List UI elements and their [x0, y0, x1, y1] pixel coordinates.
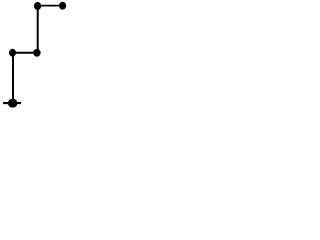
- node B (top-right junction dot): [59, 2, 66, 10]
- wire top horizontal A-B: [38, 5, 63, 7]
- wire vertical A-C: [37, 6, 39, 53]
- wire mid horizontal D-C: [13, 52, 37, 54]
- wire bottom stub through E: [3, 102, 21, 104]
- node A (top-left junction dot): [34, 2, 41, 10]
- node C (mid-right junction dot): [33, 49, 41, 57]
- wire vertical D-E: [12, 53, 14, 104]
- node D (mid-left junction dot): [9, 49, 16, 57]
- node E (bottom junction dot): [8, 99, 17, 108]
